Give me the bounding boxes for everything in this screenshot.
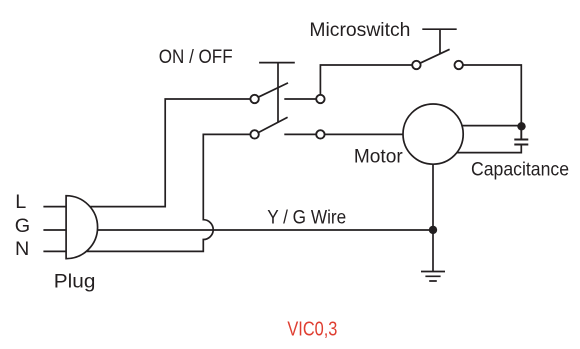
wire motor to capacitor node <box>462 125 522 127</box>
wire pole 1 contact stub <box>284 98 316 100</box>
microswitch SW2 input terminal <box>412 61 420 69</box>
wire microswitch output to capacitor node <box>463 65 521 126</box>
microswitch SW2 lever <box>420 49 450 63</box>
ground <box>421 272 445 282</box>
switch SW1 actuator bar <box>259 63 295 122</box>
svg-text:N: N <box>15 238 29 260</box>
capacitor C1 <box>514 126 528 144</box>
switch SW1 pole 2 input terminal <box>250 130 258 138</box>
wire L: plug to ON/OFF pole 1 input <box>90 99 250 207</box>
wire L stub <box>43 206 66 208</box>
svg-text:G: G <box>15 215 30 237</box>
svg-text:Motor: Motor <box>354 146 403 168</box>
node Y/G ground junction <box>429 226 437 234</box>
switch SW1 pole 2 output terminal <box>316 130 324 138</box>
wire N stub <box>43 250 66 252</box>
switch SW1 pole 2 lever <box>258 117 287 132</box>
wire Y/G: plug to ground node <box>98 229 433 231</box>
switch SW1 pole 1 input terminal <box>250 95 258 103</box>
wire capacitor to motor <box>457 146 522 153</box>
plug <box>66 196 97 259</box>
microswitch SW2 output terminal <box>455 61 463 69</box>
wire pole 1 output to microswitch <box>320 65 412 95</box>
wire G stub <box>43 229 66 231</box>
svg-text:Capacitance: Capacitance <box>471 159 569 181</box>
wire N: plug to ON/OFF pole 2 input, hop over Y/G wire <box>87 134 251 251</box>
wire pole 2 output to motor <box>325 133 404 135</box>
svg-text:VIC0,3: VIC0,3 <box>287 318 337 340</box>
wire motor to ground node <box>432 164 434 230</box>
switch SW1 pole 1 lever <box>258 83 288 97</box>
svg-text:Plug: Plug <box>54 271 96 293</box>
node capacitor junction <box>517 122 525 130</box>
switch SW1 pole 1 output terminal <box>316 95 324 103</box>
motor M1 <box>403 104 463 164</box>
wire pole 2 contact stub <box>284 133 316 135</box>
svg-text:L: L <box>15 191 26 213</box>
svg-text:ON / OFF: ON / OFF <box>159 46 233 68</box>
microswitch SW2 actuator <box>422 29 456 53</box>
svg-text:Microswitch: Microswitch <box>309 19 410 41</box>
wire ground lead <box>432 230 434 272</box>
svg-text:Y / G Wire: Y / G Wire <box>267 207 346 229</box>
